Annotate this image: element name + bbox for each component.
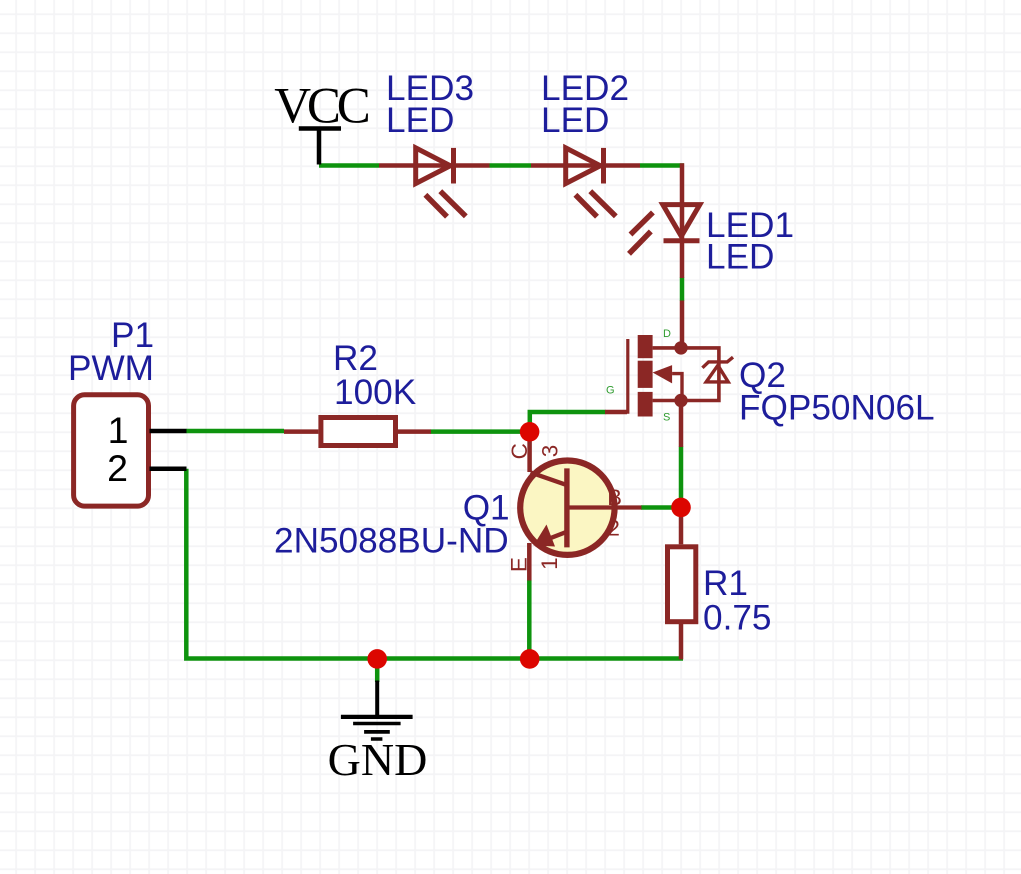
svg-text:1: 1: [537, 557, 562, 570]
svg-text:E: E: [507, 557, 532, 572]
svg-text:G: G: [606, 385, 615, 397]
svg-text:LED: LED: [541, 101, 609, 140]
svg-text:R1: R1: [703, 564, 748, 603]
svg-text:D: D: [663, 328, 671, 340]
svg-text:C: C: [507, 443, 532, 459]
svg-text:2N5088BU-ND: 2N5088BU-ND: [274, 522, 509, 561]
svg-text:S: S: [663, 412, 670, 424]
svg-text:100K: 100K: [334, 373, 417, 412]
svg-text:LED: LED: [386, 101, 454, 140]
svg-text:2: 2: [107, 447, 128, 489]
svg-text:2: 2: [608, 516, 620, 541]
svg-text:LED: LED: [706, 238, 774, 277]
svg-text:FQP50N06L: FQP50N06L: [739, 389, 935, 428]
svg-text:VCC: VCC: [274, 78, 368, 134]
svg-text:PWM: PWM: [68, 349, 154, 388]
svg-text:1: 1: [108, 409, 129, 451]
svg-text:0.75: 0.75: [703, 599, 772, 638]
svg-text:GND: GND: [328, 734, 428, 785]
svg-text:3: 3: [538, 445, 563, 458]
svg-text:R2: R2: [333, 339, 378, 378]
svg-text:B: B: [607, 485, 622, 510]
